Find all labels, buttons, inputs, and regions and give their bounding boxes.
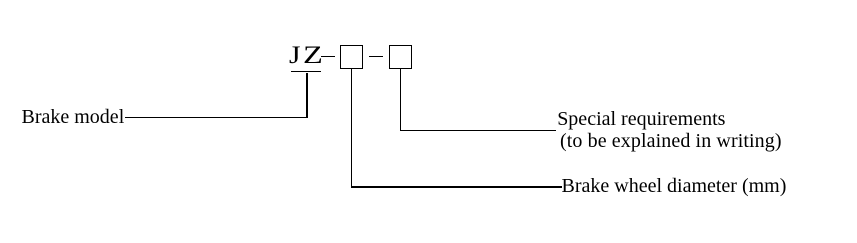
wire: box 2 vertical drop <box>400 69 401 131</box>
wire: box 1 vertical drop <box>351 69 352 187</box>
prefix label JZ : letter J <box>289 43 300 68</box>
wire: brake wheel diameter horizontal <box>351 186 562 187</box>
wire: JZ vertical drop <box>306 73 307 118</box>
wire: special requirements horizontal <box>400 130 556 131</box>
label: (to be explained in writing) <box>560 131 782 151</box>
dash between box 1 and box 2 <box>369 56 383 58</box>
label: Special requirements <box>557 109 725 129</box>
box 2 (special requirements digit) <box>389 45 411 69</box>
dash between JZ and box 1 <box>321 56 335 58</box>
prefix label JZ : letter Z <box>303 43 323 68</box>
label: Brake wheel diameter (mm) <box>562 176 787 196</box>
label: Brake model <box>22 107 125 127</box>
wire: brake model horizontal <box>125 117 308 118</box>
box 1 (brake wheel diameter digit) <box>340 45 363 69</box>
underline under JZ <box>291 71 321 73</box>
